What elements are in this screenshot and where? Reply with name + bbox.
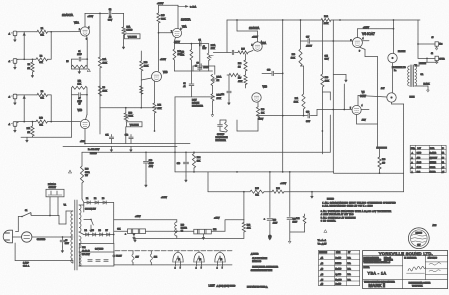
bus corner up <box>329 115 331 152</box>
svg-text:C18: C18 <box>149 160 152 162</box>
svg-text:△4: △4 <box>321 273 324 276</box>
ground below C18a <box>145 181 147 185</box>
wire J3 to bus <box>17 94 24 96</box>
svg-text:R12: R12 <box>78 81 81 83</box>
cathode resistor R16 4.7K <box>190 44 192 50</box>
svg-text:May8/69: May8/69 <box>335 280 341 282</box>
ground below C25 <box>289 239 291 242</box>
plate resistor R15 500K <box>157 13 160 23</box>
cathode bus wire <box>174 43 208 45</box>
bias ground stub <box>333 74 346 76</box>
T1 heater winding <box>79 252 81 266</box>
svg-text:R29: R29 <box>325 77 328 79</box>
screen bus wire <box>175 171 334 173</box>
svg-text:C25: C25 <box>293 219 296 221</box>
screen bus jog <box>334 172 404 173</box>
svg-text:T1 + A = Δ: T1 + A = Δ <box>318 239 327 242</box>
svg-text:+180V: +180V <box>88 16 94 18</box>
tube V4 6CA7 <box>352 38 362 48</box>
svg-text:100K: 100K <box>324 23 329 25</box>
tube V2B 12AX7A <box>152 72 162 82</box>
svg-text:BROWN: BROWN <box>398 51 406 53</box>
cathode bottom wire <box>174 70 212 72</box>
svg-text:2: 2 <box>175 267 176 269</box>
svg-text:1A 75Ω: 1A 75Ω <box>430 171 436 174</box>
svg-text:△5: △5 <box>442 171 444 174</box>
svg-text:#47: #47 <box>136 257 139 259</box>
V1A cathode network R5 C1 ladder <box>86 36 89 39</box>
svg-text:R31: R31 <box>295 98 298 100</box>
svg-text:LAST: LAST <box>209 284 216 287</box>
svg-text:4 LINE VOLTAGE AT 117 VAC: 4 LINE VOLTAGE AT 117 VAC <box>321 213 354 216</box>
pilot lamp 1 <box>132 251 134 254</box>
ground below expander <box>212 101 214 112</box>
svg-text:VOLUME: VOLUME <box>130 125 139 127</box>
svg-text:Jan3/69: Jan3/69 <box>335 257 341 259</box>
svg-text:SLO ▲: SLO ▲ <box>23 264 30 267</box>
volume label box ch1 <box>125 34 141 39</box>
svg-text:R2: R2 <box>40 55 42 57</box>
svg-text:.02: .02 <box>109 17 112 19</box>
svg-text:V2A: V2A <box>182 26 187 29</box>
svg-text:-1: -1 <box>8 124 10 126</box>
svg-text:100K: 100K <box>103 91 108 93</box>
resistor R25 <box>238 51 248 54</box>
svg-text:R11: R11 <box>27 128 30 130</box>
svg-text:7: 7 <box>201 267 202 269</box>
svg-text:R17A: R17A <box>211 44 216 47</box>
title block dividers <box>402 256 404 289</box>
cathode return riser <box>403 104 405 173</box>
wire J4 to R10 <box>17 121 36 123</box>
svg-text:TO REF BULK: TO REF BULK <box>412 285 423 287</box>
svg-text:D7: D7 <box>106 230 108 232</box>
svg-text:+340V: +340V <box>161 197 168 199</box>
svg-text:C14: C14 <box>325 56 328 58</box>
svg-text:V2B: V2B <box>163 71 168 74</box>
ground below C19 <box>185 176 187 180</box>
svg-text:C4: C4 <box>183 83 185 85</box>
svg-text:REVISION: REVISION <box>319 252 327 254</box>
V4 screen tick <box>362 40 369 42</box>
bass pot R17A 250K <box>208 44 210 53</box>
wire bus lower 2 <box>85 143 190 145</box>
svg-text:R25: R25 <box>241 49 244 51</box>
svg-text:1M: 1M <box>27 132 30 134</box>
OT top feed <box>417 20 419 58</box>
svg-text:C24: C24 <box>82 247 85 249</box>
svg-text:(6)300ΩV: (6)300ΩV <box>430 157 438 159</box>
svg-text:R10: R10 <box>39 118 42 120</box>
T2 primary winding <box>408 66 410 86</box>
ground below R3 <box>32 72 34 76</box>
bias resistor R35 <box>250 190 264 193</box>
svg-text:250K: 250K <box>217 98 222 100</box>
wire R15 down to V2B plate <box>158 23 160 71</box>
black lead ground <box>424 85 429 87</box>
rectifier diode row D4-D7 <box>84 234 114 236</box>
screen divider R29b <box>321 20 323 54</box>
svg-text:1 MEG: 1 MEG <box>127 30 133 32</box>
svg-text:-2: -2 <box>8 97 10 99</box>
svg-text:V2: V2 <box>199 259 201 261</box>
svg-text:R3: R3 <box>28 64 30 66</box>
fuse F1 1 amp <box>13 236 22 238</box>
svg-text:△1: △1 <box>321 256 324 259</box>
svg-text:MODEL: MODEL <box>364 267 370 269</box>
tube V3A 12AX7A <box>253 42 262 51</box>
svg-text:600Ω: 600Ω <box>85 172 90 174</box>
svg-text:#44: #44 <box>154 257 157 259</box>
svg-text:500K: 500K <box>161 19 166 21</box>
bias riser to V5 grid <box>343 84 345 110</box>
svg-text:C17: C17 <box>306 37 309 39</box>
power switch S1 top <box>16 231 19 233</box>
svg-text:V3: V3 <box>220 259 222 261</box>
svg-text:△3: △3 <box>321 268 324 271</box>
V2A cathode wire <box>174 37 175 41</box>
svg-text:2: 2 <box>196 267 197 269</box>
grid bus arrow ch1 <box>23 32 25 60</box>
svg-text:B+: B+ <box>394 70 396 72</box>
triangle marker A <box>69 170 72 173</box>
svg-text:DEC ± .01: DEC ± .01 <box>384 257 391 259</box>
svg-text:R.G.: R.G. <box>348 263 352 265</box>
pot R18A 1M low range <box>211 74 214 85</box>
svg-text:DIMENSIONS IN INCHES: DIMENSIONS IN INCHES <box>364 260 382 262</box>
svg-text:500K: 500K <box>129 116 134 118</box>
svg-text:R13: R13 <box>144 62 147 64</box>
power transformer T1 core <box>74 200 76 270</box>
tube V1A 12AX7A <box>80 27 89 36</box>
ground at J1 <box>14 36 16 40</box>
heater bus lower <box>114 264 232 266</box>
svg-text:(WHΩ)4: (WHΩ)4 <box>430 162 436 164</box>
expander return riser <box>174 97 176 152</box>
svg-text:2: 2 <box>217 267 218 269</box>
engineer stamp seal <box>408 228 429 249</box>
ground below volume pot ch1 <box>123 35 125 43</box>
svg-text:MAIN OSC: MAIN OSC <box>252 260 262 263</box>
ground arrow on return bus <box>26 137 28 140</box>
svg-text:470: 470 <box>382 163 385 165</box>
capacitor C4 .02 <box>191 71 193 83</box>
pot R18B 250K <box>211 94 214 101</box>
svg-text:C18: C18 <box>306 112 309 114</box>
filter cap C18a 40MF <box>145 152 147 160</box>
svg-text:V1A: V1A <box>74 21 79 25</box>
filter capacitor can C24 <box>79 243 114 266</box>
title block frame <box>363 251 448 289</box>
bias resistor R36 <box>264 191 272 193</box>
filter cap pair box 2 <box>177 230 194 232</box>
svg-text:VOLUME: VOLUME <box>128 37 137 39</box>
vertical to OT primary <box>393 20 395 28</box>
svg-text:+100V: +100V <box>258 119 264 121</box>
output transformer T2 core <box>410 65 412 87</box>
svg-text:0.750: 0.750 <box>417 153 422 155</box>
svg-text:6CA7: 6CA7 <box>360 95 367 98</box>
input jack J1 <box>13 31 17 36</box>
T1 primary wires <box>66 210 73 212</box>
svg-text:△2: △2 <box>442 166 444 169</box>
svg-text:GREEN: GREEN <box>420 63 427 65</box>
bypass cap C11 <box>111 139 113 143</box>
svg-text:R5: R5 <box>66 61 68 63</box>
svg-text:EXPANDER: EXPANDER <box>192 104 203 107</box>
svg-text:100K: 100K <box>144 66 149 68</box>
svg-text:LOW: LOW <box>192 99 197 101</box>
mains outlet wires <box>49 197 51 216</box>
svg-text:YORKVILLE SOUND LTD.: YORKVILLE SOUND LTD. <box>379 251 433 256</box>
V5 screen tick <box>361 108 369 110</box>
ground blob at node <box>134 238 136 240</box>
svg-text:D3: D3 <box>102 198 104 200</box>
HV standby switch <box>84 218 91 220</box>
bypass cap C5 <box>199 44 201 67</box>
T2 secondary wires <box>415 65 419 67</box>
title block company name <box>363 255 448 257</box>
svg-text:R15: R15 <box>161 15 164 17</box>
riser joining buses <box>403 173 405 192</box>
bias feed line <box>207 172 209 192</box>
svg-text:V3B: V3B <box>263 86 268 89</box>
bias resistor R29 horizontal <box>229 73 240 76</box>
AC plug <box>5 233 10 240</box>
svg-text:40-40-40: 40-40-40 <box>82 251 90 253</box>
dropping resistor R33 600 ohm <box>81 152 83 166</box>
approval scribble 2 <box>429 270 440 272</box>
svg-text:12AX7A: 12AX7A <box>249 26 259 30</box>
triangle legend <box>324 230 327 233</box>
ground stub near switch <box>90 225 92 230</box>
svg-text:D1: D1 <box>86 198 88 200</box>
svg-text:R28: R28 <box>261 109 264 111</box>
grid bias vertical wire <box>332 20 334 172</box>
svg-text:D6: D6 <box>99 230 101 232</box>
ground at J4 <box>14 126 16 130</box>
svg-text:-1: -1 <box>8 34 10 36</box>
wire J2 to R2 <box>17 58 36 60</box>
rectifier diode row D1-D3 <box>84 202 114 204</box>
primary lead circle brown <box>388 53 397 62</box>
switch wire to primary <box>31 215 59 217</box>
svg-text:12AX7A: 12AX7A <box>62 13 73 17</box>
heater of tube V3 <box>219 251 221 253</box>
pilot terminal circle <box>113 255 115 257</box>
grid resistor R27 <box>244 75 247 85</box>
svg-text:.05: .05 <box>65 240 67 242</box>
svg-text:100K: 100K <box>103 63 108 65</box>
svg-text:6 NO SIGNAL: 6 NO SIGNAL <box>321 219 336 222</box>
filter cap pair box 1 <box>114 230 128 232</box>
T1 primary winding <box>71 211 73 263</box>
svg-text:JAN 31/69: JAN 31/69 <box>428 257 438 260</box>
svg-text:7W: 7W <box>85 175 88 177</box>
resistor R1 68K <box>24 31 37 33</box>
approval scribble 1 <box>429 263 441 265</box>
svg-text:600 P.I.V. 1W: 600 P.I.V. 1W <box>85 208 96 210</box>
svg-text:BLUE: BLUE <box>410 97 416 99</box>
svg-text:RANGE: RANGE <box>192 101 200 104</box>
ground below C12 <box>130 147 132 150</box>
svg-text:PIN△: PIN△ <box>411 147 416 150</box>
svg-text:YBA - 1A: YBA - 1A <box>368 271 387 275</box>
R33 to rectifier wire <box>81 183 83 199</box>
cathode resistor R38 <box>378 157 381 169</box>
HV secondary to rectifier <box>79 204 84 206</box>
B+ chain top wire <box>114 219 177 221</box>
svg-text:BROWN/YEL TO: BROWN/YEL TO <box>392 67 406 69</box>
coupling cap C17 to V4 grid <box>301 40 308 42</box>
signature <box>408 266 426 271</box>
svg-text:to J2 A: to J2 A <box>190 6 197 9</box>
svg-text:7: 7 <box>180 267 181 269</box>
divider vertical wire <box>282 20 284 172</box>
svg-text:C3: C3 <box>197 63 199 65</box>
T1 HV secondary winding <box>79 205 81 232</box>
cathode resistor R14a 100K <box>173 44 175 49</box>
wiper wire to PI <box>213 51 227 53</box>
svg-text:R36: R36 <box>276 188 279 190</box>
svg-text:C14: C14 <box>221 94 224 96</box>
svg-text:12AX7A: 12AX7A <box>181 18 191 22</box>
revisions table <box>319 250 360 285</box>
svg-text:+415V: +415V <box>214 218 220 220</box>
filter cap C23 <box>269 172 271 218</box>
svg-text:R8: R8 <box>103 87 105 89</box>
svg-text:+415V: +415V <box>135 216 141 218</box>
high range expander cluster <box>218 124 223 126</box>
coupling capacitor C2 .02 <box>100 12 108 14</box>
V3B tail resistor R28 <box>257 102 259 107</box>
ground at J3 <box>14 99 16 103</box>
svg-text:J1 J3 EXT. PATCH: J1 J3 EXT. PATCH <box>252 257 268 260</box>
svg-text:J5: J5 <box>432 37 434 39</box>
svg-text:C11: C11 <box>105 135 108 137</box>
svg-text:R30: R30 <box>292 54 295 56</box>
svg-text:10.43: 10.43 <box>417 162 422 164</box>
svg-text:C4: C4 <box>199 39 201 41</box>
svg-text:R42: R42 <box>247 224 250 226</box>
svg-text:R38: R38 <box>382 159 385 161</box>
ground arrow from bias line <box>311 192 313 197</box>
wire R10 to V1B grid <box>48 121 81 123</box>
svg-text:R14: R14 <box>158 105 161 107</box>
ground below cap box 1 <box>133 234 135 238</box>
heater bus left riser <box>113 251 115 265</box>
screen bus left riser <box>174 152 176 172</box>
screen node riser <box>243 192 245 220</box>
svg-text:R27: R27 <box>238 78 241 80</box>
fuse wire to primary <box>63 236 73 238</box>
svg-text:△ (C24) (R45) USED: △ (C24) (R45) USED <box>217 284 236 287</box>
bypass cap C12 <box>130 139 132 143</box>
svg-text:98.0: 98.0 <box>417 172 421 174</box>
resistor R9 68K <box>24 94 37 96</box>
svg-text:OUTLET: OUTLET <box>49 187 57 189</box>
ground at J2 <box>14 63 16 67</box>
V3A plate wire <box>257 31 259 42</box>
primary lead circle blue / pilot <box>387 93 396 102</box>
bias resistor R44 <box>304 214 306 216</box>
to J2 arrow <box>178 5 188 7</box>
V4 cathode wire <box>359 47 365 49</box>
input jack J3 <box>13 94 17 99</box>
svg-text:R.G.: R.G. <box>348 280 352 282</box>
ground return bus <box>32 136 34 137</box>
svg-text:45.3: 45.3 <box>417 157 421 159</box>
volume pot R7A 1M <box>123 13 125 27</box>
svg-text:MARK Ⅱ: MARK Ⅱ <box>369 283 386 288</box>
svg-text:V1: V1 <box>178 259 180 261</box>
svg-text:N. TRAYNOR: N. TRAYNOR <box>404 257 417 260</box>
svg-text:+345V: +345V <box>280 183 287 185</box>
resistor R11 1M <box>32 122 34 126</box>
mixing resistor R13 100K <box>140 51 142 61</box>
V1B plate wire to bottom bus <box>84 129 86 144</box>
svg-text:.02: .02 <box>203 46 205 48</box>
resistor R10 68K <box>36 120 48 123</box>
resistor R3 1M <box>32 59 34 62</box>
wire between primary leads <box>392 63 394 93</box>
svg-text:# 47: # 47 <box>381 88 385 90</box>
svg-text:3 ALL VOLTAGES MEASURED WITH: 3 ALL VOLTAGES MEASURED WITH A 20,000 Ω/… <box>321 210 392 213</box>
wire box2 to dropping resistor <box>211 230 225 232</box>
svg-text:V1B: V1B <box>78 109 83 112</box>
ground below cap box 2 <box>203 234 205 238</box>
bias wire to riser <box>284 191 404 193</box>
PI plate resistor R31 <box>303 66 305 94</box>
rail continues to output stage <box>331 19 420 21</box>
tube V1B 12AX7A <box>80 119 89 128</box>
volume pot R7B 500K <box>125 108 127 113</box>
svg-text:J4: J4 <box>431 53 433 55</box>
svg-text:ONT: ONT <box>417 244 420 246</box>
svg-text:D2: D2 <box>94 198 96 200</box>
svg-text:R34: R34 <box>197 157 200 159</box>
speaker jack Spkr <box>418 57 435 59</box>
svg-text:B+ OR 325V: B+ OR 325V <box>88 149 100 151</box>
wire volume 2 tap <box>100 107 160 109</box>
heater of tube V2 <box>198 251 200 253</box>
svg-text:1M: 1M <box>27 68 30 70</box>
PI plate resistor R30 <box>300 20 302 49</box>
svg-text:6.3V RMS: 6.3V RMS <box>95 249 104 251</box>
expander lower wire <box>175 96 215 98</box>
svg-text:C21: C21 <box>117 229 120 231</box>
rail +325V to PI <box>227 19 321 21</box>
rectifier output riser <box>113 203 115 244</box>
coupling cap C18b to V5 grid <box>303 109 305 116</box>
ground dot below C23 <box>268 235 272 239</box>
svg-text:R33: R33 <box>85 169 88 171</box>
V5 plate wire <box>357 96 359 106</box>
V4 plate wire <box>356 29 358 38</box>
heater of tube V1 <box>177 251 179 253</box>
svg-text:EXPANDER: EXPANDER <box>216 139 227 142</box>
wire below volume box ch2 <box>125 127 127 144</box>
svg-text:C19: C19 <box>177 163 180 165</box>
svg-text:J2 EXT. MODEL CONTROLLER: J2 EXT. MODEL CONTROLLER <box>252 267 278 269</box>
svg-text:.1 600V: .1 600V <box>306 46 313 48</box>
heater ground arrow <box>133 233 135 235</box>
svg-text:Mar1/69: Mar1/69 <box>335 269 341 271</box>
terminal strip blob <box>376 147 387 149</box>
svg-text:C16: C16 <box>267 70 270 72</box>
series capacitor C4 .02 600V <box>198 41 200 46</box>
svg-text:V3A: V3A <box>262 42 267 45</box>
